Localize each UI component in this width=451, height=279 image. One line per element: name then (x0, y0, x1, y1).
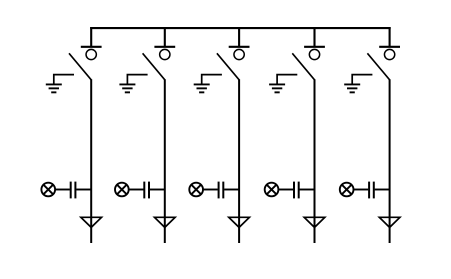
wire: lamp L5 to capacitor C5 (354, 189, 369, 191)
switch S2 bushing contact circle (160, 49, 170, 59)
capacitor C2 (capacitive divider) (144, 182, 149, 199)
ground (earthing switch E2) (119, 84, 135, 92)
wire: capacitor C4 to feeder (node) (300, 189, 315, 191)
cable termination arrow (branch 1) (81, 217, 102, 227)
wire: branch 4 drop from busbar (313, 27, 315, 47)
ground (earthing switch E4) (269, 84, 285, 92)
capacitor C1 (capacitive divider) (71, 182, 76, 199)
wire: capacitor C1 to feeder (node) (76, 189, 91, 191)
voltage indicator lamp L2 (circle with X) (115, 183, 129, 197)
ground (earthing switch E1) (46, 84, 62, 92)
wire: branch 5 feeder vertical (389, 79, 391, 243)
cable termination arrow (branch 2) (155, 217, 176, 227)
earthing switch E3 connection wire (202, 75, 222, 85)
wire: capacitor C2 to feeder (node) (150, 189, 165, 191)
ground (earthing switch E3) (194, 84, 210, 92)
capacitor C4 (capacitive divider) (294, 182, 299, 199)
wire: capacitor C5 to feeder (node) (375, 189, 390, 191)
cable termination arrow (branch 5) (379, 217, 400, 227)
earthing switch E5 connection wire (352, 75, 372, 85)
switch S2 open blade (143, 53, 165, 80)
switch S1 bushing contact circle (86, 49, 96, 59)
ground (earthing switch E5) (344, 84, 360, 92)
cable termination arrow (branch 4) (304, 217, 325, 227)
voltage indicator lamp L5 (circle with X) (340, 183, 354, 197)
earthing switch E1 connection wire (54, 75, 74, 85)
voltage indicator lamp L1 (circle with X) (41, 183, 55, 197)
wire: branch 3 feeder vertical (238, 79, 240, 243)
switch S4 bushing contact circle (309, 49, 319, 59)
wire: branch 3 drop from busbar (238, 27, 240, 47)
earthing switch E4 connection wire (277, 75, 297, 85)
wire: lamp L1 to capacitor C1 (55, 189, 70, 191)
voltage indicator lamp L4 (circle with X) (265, 183, 279, 197)
busbar (90, 27, 391, 29)
switch S3 bushing contact circle (234, 49, 244, 59)
wire: branch 2 feeder vertical (164, 79, 166, 243)
wire: lamp L2 to capacitor C2 (129, 189, 144, 191)
wire: lamp L3 to capacitor C3 (203, 189, 218, 191)
switch S2 fixed contact bar (154, 46, 175, 48)
earthing switch E2 connection wire (127, 75, 147, 85)
capacitor C3 (capacitive divider) (219, 182, 224, 199)
voltage indicator lamp L3 (circle with X) (189, 183, 203, 197)
switch S1 open blade (69, 53, 91, 80)
cable termination arrow (branch 3) (229, 217, 250, 227)
wire: lamp L4 to capacitor C4 (278, 189, 293, 191)
wire: branch 4 feeder vertical (314, 79, 316, 243)
switch S4 open blade (292, 53, 314, 80)
switch S5 open blade (367, 53, 389, 80)
wire: branch 2 drop from busbar (164, 27, 166, 47)
switch S3 fixed contact bar (229, 46, 250, 48)
switch S5 fixed contact bar (379, 46, 400, 48)
switch S3 open blade (217, 53, 239, 80)
switch S1 fixed contact bar (81, 46, 102, 48)
switch S4 fixed contact bar (304, 46, 325, 48)
wire: branch 5 drop from busbar (389, 27, 391, 47)
wire: capacitor C3 to feeder (node) (224, 189, 239, 191)
switch S5 bushing contact circle (384, 49, 394, 59)
wire: branch 1 drop from busbar (90, 27, 92, 47)
wire: branch 1 feeder vertical (90, 79, 92, 243)
capacitor C5 (capacitive divider) (369, 182, 374, 199)
